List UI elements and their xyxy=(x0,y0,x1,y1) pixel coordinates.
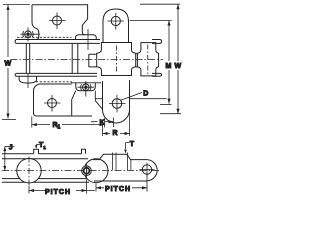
upper link plate bar (edge view) xyxy=(15,40,100,44)
attachment hole bottom-left: crosshair xyxy=(44,95,61,112)
svg-text:1: 1 xyxy=(58,125,61,131)
J dimension: top extension xyxy=(5,146,15,148)
small roller vertical centerline xyxy=(86,163,88,179)
PITCH 2 line xyxy=(96,187,147,189)
bolt B2 (bottom): crosshair xyxy=(78,81,95,97)
lug hole: crosshair xyxy=(108,13,125,30)
plate left edge and bend curve xyxy=(32,5,39,40)
dimension R1: extension lines xyxy=(32,117,105,128)
lug side hole crosshair xyxy=(109,95,126,113)
pin P1 head dome (bottom) xyxy=(19,76,36,83)
PITCH 1 line xyxy=(29,190,95,192)
svg-text:PITCH: PITCH xyxy=(45,189,71,196)
middle roller spool (plan) xyxy=(97,43,136,76)
T callout bracket xyxy=(126,143,130,149)
lug side hole circle xyxy=(112,99,122,109)
pin P2 head dome (top, flat) xyxy=(76,35,97,40)
lug hole: circle xyxy=(111,16,120,25)
roller1 vertical centerline xyxy=(28,157,30,186)
PITCH 1 dimension: extension ticks xyxy=(29,180,87,194)
pin P1 cottered end: center square xyxy=(27,33,30,36)
attachment hole top-left: crosshair xyxy=(49,13,66,30)
small bushing thick ring xyxy=(84,168,90,174)
T1 tab on plate xyxy=(34,149,39,154)
lug bottom edge line xyxy=(103,43,129,45)
leader line to D xyxy=(121,93,142,101)
side view centerline xyxy=(2,170,160,172)
view2 pin crosshair xyxy=(140,163,155,177)
bottom plate right edge with chamfer xyxy=(72,91,76,116)
pin P1 cottered end (top): crosshair xyxy=(21,28,41,42)
dimension M: vertical with arrows xyxy=(168,21,170,104)
lug side view (bottom right) xyxy=(103,81,130,123)
dimension W left: extension line top xyxy=(3,4,30,6)
pin P2 stub between bars xyxy=(72,43,78,73)
lower face extension line xyxy=(95,98,166,100)
svg-text:K: K xyxy=(100,119,105,126)
svg-text:W: W xyxy=(5,61,12,68)
svg-text:T: T xyxy=(130,141,135,148)
view2 left big roller xyxy=(84,159,108,183)
small bushing roller xyxy=(82,166,92,176)
dimension W left: extension line bottom xyxy=(2,119,16,121)
view2 plate bottom edge xyxy=(94,180,147,182)
hidden bend line (dashed) bottom xyxy=(36,81,72,83)
PITCH 2 dimension: extension ticks xyxy=(96,176,147,192)
dimension W right: vertical with arrows xyxy=(177,4,179,114)
view2 pin circle xyxy=(142,165,151,174)
svg-text:D: D xyxy=(143,90,148,97)
side view plate lines xyxy=(2,154,89,183)
svg-text:1: 1 xyxy=(43,145,46,150)
vertical lug (plan, round top) xyxy=(103,9,129,44)
right roller spool (plan) xyxy=(137,43,158,76)
svg-text:R: R xyxy=(113,130,118,137)
view2 raised plate contour xyxy=(93,154,137,159)
lower right step edge xyxy=(95,91,102,110)
attachment hole bottom-left: circle xyxy=(48,99,57,108)
svg-text:W: W xyxy=(175,63,182,70)
svg-text:J: J xyxy=(9,145,13,152)
hidden bend line (dashed) top xyxy=(17,36,72,38)
right bar stub top with rounded cap xyxy=(152,40,162,44)
dimension K: line and arrow xyxy=(91,121,114,123)
chain plan-view centerline xyxy=(11,59,164,61)
bushing stub left of middle roller xyxy=(89,54,97,67)
dimension R: line with arrows xyxy=(103,133,130,135)
bolt B2: circle xyxy=(83,84,90,91)
dimension R1: line with arrows xyxy=(32,124,105,126)
middle roller vertical centerline xyxy=(116,46,118,74)
svg-text:M: M xyxy=(166,63,172,70)
dimension K extension tick xyxy=(113,118,115,128)
lower boss (flat-bottom dome) xyxy=(76,83,96,91)
second tab xyxy=(82,149,86,154)
lower pin-plate line xyxy=(71,82,101,84)
pin P1 bottom centerline tick xyxy=(27,74,29,88)
bushing stub between rollers xyxy=(136,54,141,67)
view2 tab hidden lines xyxy=(113,153,131,171)
pin P1 cottered end: circle xyxy=(25,31,32,38)
T1 callout bracket xyxy=(36,145,40,147)
dimension W right: top extension xyxy=(140,3,180,5)
pin P1 shaft xyxy=(26,44,29,74)
right bar stub bottom with rounded cap xyxy=(152,73,162,76)
pin P1 cottered end: washer arcs xyxy=(23,31,33,37)
right roller centerline xyxy=(147,45,149,75)
lower link plate bar (edge view) xyxy=(15,73,97,76)
bolt B2 upper centerline xyxy=(87,29,89,50)
dimension M: top extension line xyxy=(130,20,172,22)
dimension M: bottom extension line xyxy=(160,104,172,106)
dimension W left: vertical line with arrows xyxy=(7,5,9,119)
top-left bent attachment plate outline xyxy=(32,5,88,35)
big roller circle left xyxy=(17,159,41,183)
view2 plate right end cap xyxy=(137,160,157,181)
dimension R: extension lines xyxy=(103,80,130,136)
svg-text:PITCH: PITCH xyxy=(105,186,131,193)
J dimension vertical with arrows xyxy=(4,147,6,171)
bottom-left bent attachment plate outline xyxy=(34,84,93,116)
bolt B2: washer arcs xyxy=(81,84,91,90)
dimension W right: bottom extension xyxy=(160,113,181,115)
bolt B2: center square xyxy=(84,86,87,89)
attachment hole top-left: circle xyxy=(53,16,62,25)
